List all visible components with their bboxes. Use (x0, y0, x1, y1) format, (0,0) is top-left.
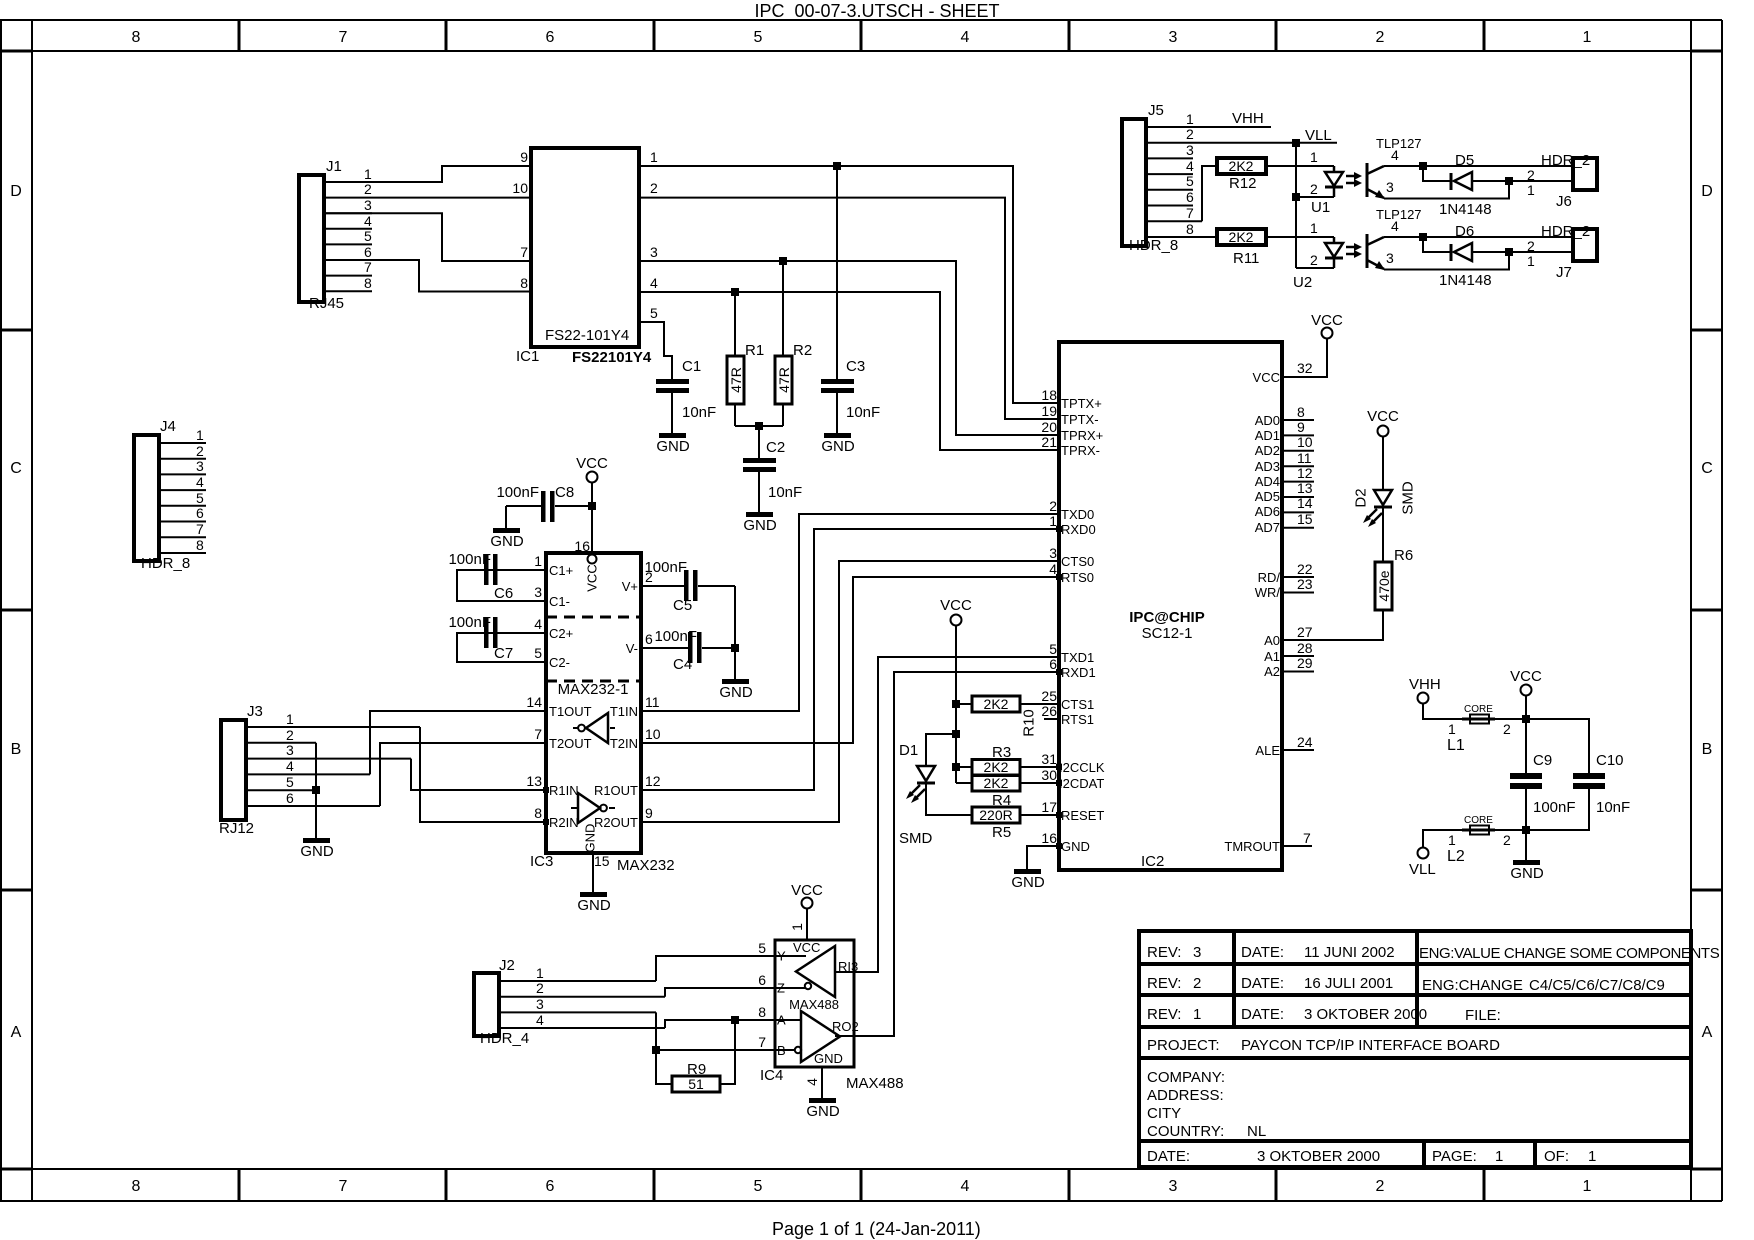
svg-text:5: 5 (650, 305, 658, 321)
svg-text:6: 6 (758, 972, 766, 988)
power VLL terminal (1409, 830, 1462, 878)
IC2 IPC@CHIP SC12-1 (1041, 342, 1312, 870)
svg-text:2: 2 (536, 980, 544, 996)
svg-text:MAX488: MAX488 (846, 1075, 904, 1092)
svg-text:PAGE:: PAGE: (1432, 1148, 1477, 1165)
pin stub AD4 (1282, 481, 1314, 483)
pin connection marks (543, 526, 1062, 849)
wire IC1.4 to IC2.TPRX- (639, 292, 1059, 450)
svg-text:R12: R12 (1229, 175, 1257, 192)
pin stub RD/ (1282, 576, 1314, 578)
svg-text:GND: GND (577, 897, 611, 914)
svg-text:1: 1 (650, 149, 658, 165)
svg-text:RXD0: RXD0 (1061, 522, 1096, 537)
wire IC3.R2OUT to IC2.CTS0 (641, 561, 1059, 822)
driver triangle in IC4 (775, 946, 858, 997)
node junction on pin1 line for C3 (833, 162, 841, 170)
svg-text:MAX232-1: MAX232-1 (558, 681, 629, 698)
svg-text:2: 2 (1310, 252, 1318, 268)
svg-text:COUNTRY:: COUNTRY: (1147, 1123, 1224, 1140)
svg-text:Page 1 of 1 (24-Jan-2011): Page 1 of 1 (24-Jan-2011) (772, 1219, 981, 1239)
svg-text:4: 4 (961, 1178, 970, 1195)
power VHH terminal (1409, 676, 1462, 719)
svg-text:10: 10 (512, 180, 528, 196)
svg-text:VCC: VCC (1510, 668, 1542, 685)
pin stub AD2 (1282, 450, 1314, 452)
svg-text:3: 3 (196, 458, 204, 474)
svg-text:VCC: VCC (1311, 312, 1343, 329)
svg-text:5: 5 (754, 1178, 763, 1195)
connector J3 RJ12 (219, 703, 420, 837)
node junctions on VCC rail (952, 700, 960, 708)
svg-text:16 JULI 2001: 16 JULI 2001 (1304, 975, 1393, 992)
pin stub AD3 (1282, 465, 1314, 467)
svg-text:TPTX-: TPTX- (1061, 412, 1099, 427)
wire IC1.1 to IC2.TPTX+ (639, 166, 1059, 403)
svg-text:L2: L2 (1447, 848, 1465, 865)
wire IC1.3 to IC2.TPRX+ (639, 261, 1059, 435)
svg-text:8: 8 (1297, 404, 1305, 420)
wire IC1.5 to C1 (639, 322, 672, 381)
resistor R11 2K2 (1217, 229, 1266, 267)
svg-text:6: 6 (546, 1178, 555, 1195)
svg-text:7: 7 (339, 29, 348, 46)
wire J2.1 to IC4.Y (656, 956, 775, 981)
pin stub ALE (1282, 749, 1314, 751)
ground for C2 (743, 512, 777, 534)
svg-text:R6: R6 (1394, 547, 1413, 564)
svg-text:SMD: SMD (1400, 481, 1417, 515)
svg-text:16: 16 (1041, 830, 1057, 846)
svg-text:V-: V- (626, 641, 638, 656)
svg-text:9: 9 (520, 149, 528, 165)
title block (1139, 931, 1720, 1167)
svg-text:5: 5 (286, 774, 294, 790)
svg-text:1: 1 (286, 711, 294, 727)
capacitor C3 10nF (821, 166, 880, 433)
svg-text:HDR_2: HDR_2 (1541, 223, 1590, 240)
power VCC at MAX232 pin16 (576, 455, 608, 553)
svg-text:5: 5 (196, 490, 204, 506)
svg-text:4: 4 (1391, 147, 1399, 163)
svg-text:C: C (10, 460, 22, 477)
svg-text:A2: A2 (1264, 664, 1280, 679)
svg-text:1: 1 (1588, 1148, 1596, 1165)
svg-text:9: 9 (1297, 419, 1305, 435)
svg-text:RO2: RO2 (832, 1019, 859, 1034)
svg-text:RJ12: RJ12 (219, 820, 254, 837)
svg-text:C1-: C1- (549, 594, 570, 609)
svg-text:15: 15 (594, 853, 610, 869)
svg-text:1: 1 (1495, 1148, 1503, 1165)
svg-text:IC4: IC4 (760, 1067, 783, 1084)
svg-text:1: 1 (1193, 1006, 1201, 1023)
svg-text:C1: C1 (682, 358, 701, 375)
wire R1/R2 common node (735, 425, 783, 427)
svg-text:10nF: 10nF (682, 404, 716, 421)
svg-text:8: 8 (132, 29, 141, 46)
svg-text:J5: J5 (1148, 102, 1164, 119)
svg-text:TPRX-: TPRX- (1061, 443, 1100, 458)
svg-text:RTS0: RTS0 (1061, 570, 1094, 585)
svg-text:I2CDAT: I2CDAT (1059, 776, 1104, 791)
svg-text:47R: 47R (728, 367, 744, 393)
pin stub RTS1 (1044, 718, 1059, 720)
svg-text:AD1: AD1 (1255, 428, 1280, 443)
svg-text:11 JUNI 2002: 11 JUNI 2002 (1304, 944, 1395, 961)
svg-text:TXD0: TXD0 (1061, 507, 1094, 522)
wire to C10 branch (1526, 719, 1589, 774)
svg-text:C2: C2 (766, 439, 785, 456)
svg-text:47R: 47R (776, 367, 792, 393)
receiver triangle in IC4 (775, 1011, 859, 1062)
svg-text:1: 1 (1448, 832, 1456, 848)
wire IC2.TXD1 to MAX488 RI (835, 657, 1059, 972)
svg-text:R5: R5 (992, 824, 1011, 841)
svg-text:C: C (1701, 460, 1713, 477)
svg-text:RESET: RESET (1061, 808, 1104, 823)
wire J2.4 to IC4.A and R9 (665, 1020, 775, 1028)
svg-text:R10: R10 (1021, 709, 1038, 737)
svg-text:2: 2 (1310, 181, 1318, 197)
svg-text:C2-: C2- (549, 655, 570, 670)
svg-text:470e: 470e (1376, 570, 1392, 601)
svg-text:6: 6 (645, 631, 653, 647)
svg-text:2K2: 2K2 (984, 759, 1009, 775)
svg-text:PAYCON TCP/IP INTERFACE BOARD: PAYCON TCP/IP INTERFACE BOARD (1241, 1037, 1500, 1054)
svg-text:1: 1 (1527, 253, 1535, 269)
svg-text:10nF: 10nF (1596, 799, 1630, 816)
svg-text:R9: R9 (687, 1061, 706, 1078)
capacitor C5 100nF on V+ (641, 559, 735, 648)
IC3 MAX232 box (526, 538, 674, 874)
power VCC at D2 (1367, 408, 1399, 437)
wire IC3.T1IN to IC2.TXD0 (641, 514, 1059, 711)
svg-text:1: 1 (536, 965, 544, 981)
pin stub AD5 (1282, 496, 1314, 498)
wire IC3.R1OUT to IC2.RXD0 (641, 529, 1059, 790)
svg-text:GND: GND (719, 684, 753, 701)
ground for C9/C10/L2 (1510, 830, 1544, 882)
svg-text:100nF: 100nF (1533, 799, 1576, 816)
svg-text:3: 3 (534, 584, 542, 600)
svg-text:GND: GND (806, 1103, 840, 1120)
svg-text:22: 22 (1297, 561, 1313, 577)
ground for C3 (821, 433, 855, 455)
svg-text:4: 4 (961, 29, 970, 46)
inductor L2 CORE (1447, 815, 1526, 865)
svg-text:AD0: AD0 (1255, 413, 1280, 428)
resistor R10 2K2 (956, 696, 1059, 737)
svg-text:C7: C7 (494, 645, 513, 662)
svg-text:SC12-1: SC12-1 (1142, 625, 1193, 642)
pin stub WR/ (1282, 592, 1314, 594)
node junction L2/C9/GND (1522, 826, 1530, 834)
wire IC2.GND to ground (1027, 846, 1059, 869)
capacitor C8 100nF (496, 484, 592, 528)
diode D5 1N4148 (1423, 152, 1573, 218)
svg-text:U2: U2 (1293, 274, 1312, 291)
svg-text:7: 7 (758, 1034, 766, 1050)
capacitor C6 100nF with loop to C1- (448, 551, 546, 602)
svg-text:J3: J3 (247, 703, 263, 720)
svg-text:10: 10 (645, 726, 661, 742)
node junction on pin3 line for R2 (779, 257, 787, 265)
wire VLL rail down to U1.2/U2.2 (1295, 143, 1297, 268)
svg-text:28: 28 (1297, 640, 1313, 656)
svg-text:31: 31 (1041, 751, 1057, 767)
svg-text:2K2: 2K2 (1229, 158, 1254, 174)
svg-text:V+: V+ (622, 579, 638, 594)
svg-text:GND: GND (1011, 874, 1045, 891)
resistor R5 220R (972, 807, 1059, 841)
svg-text:GND: GND (300, 843, 334, 860)
svg-text:AD2: AD2 (1255, 443, 1280, 458)
svg-text:R1OUT: R1OUT (594, 783, 638, 798)
svg-text:RJ45: RJ45 (309, 295, 344, 312)
svg-text:B: B (11, 741, 22, 758)
svg-text:IPC@CHIP: IPC@CHIP (1129, 609, 1204, 626)
svg-text:J7: J7 (1556, 264, 1572, 281)
svg-text:13: 13 (526, 773, 542, 789)
inverter buffer T (MAX232 driver) (573, 713, 615, 743)
capacitor C2 10nF (743, 426, 802, 512)
resistor R2 47R (775, 261, 812, 426)
svg-text:10nF: 10nF (846, 404, 880, 421)
connector J2 HDR_4 (474, 957, 665, 1047)
svg-text:5: 5 (534, 645, 542, 661)
wire U1 emitter (1384, 181, 1509, 199)
svg-text:ADDRESS:: ADDRESS: (1147, 1087, 1224, 1104)
inverter buffer R (MAX232 receiver) (571, 793, 615, 823)
svg-text:32: 32 (1297, 360, 1313, 376)
svg-text:ALE: ALE (1255, 743, 1280, 758)
svg-text:7: 7 (196, 521, 204, 537)
svg-text:3: 3 (536, 996, 544, 1012)
power VCC pull-up rail (940, 597, 972, 783)
svg-text:7: 7 (1186, 205, 1194, 221)
svg-text:21: 21 (1041, 434, 1057, 450)
svg-text:4: 4 (196, 474, 204, 490)
svg-text:C10: C10 (1596, 752, 1624, 769)
svg-text:3: 3 (1186, 142, 1194, 158)
wire U2 emitter (1384, 252, 1509, 270)
svg-text:5: 5 (754, 29, 763, 46)
svg-text:T2IN: T2IN (610, 736, 638, 751)
svg-text:2K2: 2K2 (984, 775, 1009, 791)
wire J3.2/J3.5 to GND (315, 743, 317, 838)
svg-text:ENG:CHANGE: ENG:CHANGE (1422, 977, 1523, 994)
svg-text:CITY: CITY (1147, 1105, 1181, 1122)
ground for IC4 pin4 (804, 1067, 840, 1120)
wire J3.1 to IC3.R2IN (420, 727, 546, 822)
wire R11 to U2 LED (1266, 236, 1334, 238)
svg-text:PROJECT:: PROJECT: (1147, 1037, 1220, 1054)
svg-text:R3: R3 (992, 744, 1011, 761)
svg-text:10nF: 10nF (768, 484, 802, 501)
svg-text:8: 8 (364, 275, 372, 291)
svg-text:ENG:VALUE CHANGE SOME COMPONEN: ENG:VALUE CHANGE SOME COMPONENTS (1419, 945, 1720, 962)
svg-text:L1: L1 (1447, 737, 1465, 754)
svg-text:VLL: VLL (1409, 861, 1436, 878)
svg-text:2K2: 2K2 (1229, 229, 1254, 245)
node junction VCC/C8 (588, 502, 596, 510)
svg-text:RD/: RD/ (1258, 570, 1281, 585)
wire J1.6 to IC1.8 (324, 260, 531, 292)
svg-text:R1IN: R1IN (549, 783, 579, 798)
resistor R9 51 (672, 1061, 720, 1092)
svg-text:I2CCLK: I2CCLK (1059, 760, 1105, 775)
svg-text:D5: D5 (1455, 152, 1474, 169)
svg-text:17: 17 (1041, 799, 1057, 815)
svg-text:220R: 220R (979, 807, 1012, 823)
svg-text:2: 2 (1503, 721, 1511, 737)
svg-text:C9: C9 (1533, 752, 1552, 769)
svg-text:HDR_2: HDR_2 (1541, 152, 1590, 169)
svg-text:1N4148: 1N4148 (1439, 272, 1492, 289)
svg-text:R2OUT: R2OUT (594, 815, 638, 830)
optocoupler U1 TLP127 (1296, 136, 1422, 216)
svg-text:1: 1 (1583, 29, 1592, 46)
diode D1 SMD LED (899, 742, 972, 847)
svg-text:1: 1 (196, 427, 204, 443)
capacitor C9 100nF (1510, 719, 1576, 830)
capacitor C4 100nF on V- (641, 628, 735, 673)
capacitor C10 10nF (1526, 752, 1630, 830)
ground for IC3 pin15 (577, 853, 611, 914)
svg-text:6: 6 (196, 505, 204, 521)
svg-text:VCC: VCC (585, 564, 600, 591)
svg-text:TMROUT: TMROUT (1224, 839, 1280, 854)
svg-text:2K2: 2K2 (984, 696, 1009, 712)
svg-text:8: 8 (534, 805, 542, 821)
svg-text:HDR_4: HDR_4 (480, 1030, 529, 1047)
svg-text:MAX232: MAX232 (617, 857, 675, 874)
svg-text:J6: J6 (1556, 193, 1572, 210)
svg-text:20: 20 (1041, 419, 1057, 435)
wire VCC rail to D1 (926, 734, 956, 766)
svg-text:2: 2 (1193, 975, 1201, 992)
pin stub AD7 (1282, 527, 1314, 529)
pin stub AD1 (1282, 434, 1314, 436)
svg-text:8: 8 (132, 1178, 141, 1195)
svg-text:3: 3 (1386, 179, 1394, 195)
svg-text:R2: R2 (793, 342, 812, 359)
svg-text:7: 7 (1303, 830, 1311, 846)
svg-text:5: 5 (1049, 641, 1057, 657)
svg-text:3: 3 (286, 742, 294, 758)
svg-text:VCC: VCC (1253, 370, 1280, 385)
svg-text:6: 6 (1186, 189, 1194, 205)
svg-text:T2OUT: T2OUT (549, 736, 592, 751)
resistor R1 47R (727, 292, 764, 426)
svg-text:51: 51 (688, 1076, 704, 1092)
svg-text:7: 7 (339, 1178, 348, 1195)
svg-text:C6: C6 (494, 585, 513, 602)
node junction VLL (1292, 139, 1300, 147)
svg-text:VCC: VCC (1367, 408, 1399, 425)
node junction C5/C4 (731, 644, 739, 652)
svg-text:2: 2 (1376, 29, 1385, 46)
ground for C8 (490, 528, 524, 550)
svg-text:2: 2 (1527, 238, 1535, 254)
svg-text:J2: J2 (499, 957, 515, 974)
svg-text:2: 2 (1376, 1178, 1385, 1195)
svg-text:2: 2 (1049, 498, 1057, 514)
svg-text:8: 8 (196, 537, 204, 553)
svg-text:C8: C8 (555, 484, 574, 501)
diode D6 1N4148 (1423, 223, 1573, 289)
power VCC at IC4 pin1 (789, 882, 823, 940)
svg-text:OF:: OF: (1544, 1148, 1569, 1165)
svg-text:11: 11 (645, 694, 660, 710)
svg-text:CTS1: CTS1 (1061, 697, 1094, 712)
connector J1 RJ45 (299, 158, 531, 312)
ground for C4/C5 (719, 648, 753, 701)
svg-text:8: 8 (1186, 221, 1194, 237)
svg-text:3 OKTOBER 2000: 3 OKTOBER 2000 (1304, 1006, 1427, 1023)
svg-text:4: 4 (534, 616, 542, 632)
svg-text:5: 5 (364, 228, 372, 244)
resistor R3 2K2 (956, 744, 1059, 775)
svg-text:VCC: VCC (940, 597, 972, 614)
svg-text:A1: A1 (1264, 649, 1280, 664)
optocoupler U2 TLP127 (1293, 207, 1422, 291)
svg-text:7: 7 (534, 726, 542, 742)
svg-text:MAX488: MAX488 (789, 997, 839, 1012)
svg-text:C5: C5 (673, 597, 692, 614)
ground for J3 (300, 838, 334, 860)
wire IC2.A0 to R6 (1282, 610, 1383, 640)
svg-text:AD5: AD5 (1255, 489, 1280, 504)
svg-text:3: 3 (1169, 29, 1178, 46)
svg-text:SMD: SMD (899, 830, 933, 847)
svg-text:RXD1: RXD1 (1061, 665, 1096, 680)
svg-text:GND: GND (583, 824, 598, 853)
svg-text:8: 8 (520, 275, 528, 291)
svg-text:1: 1 (1527, 182, 1535, 198)
svg-text:DATE:: DATE: (1241, 975, 1284, 992)
svg-text:12: 12 (645, 773, 661, 789)
svg-text:IC3: IC3 (530, 853, 553, 870)
svg-text:J1: J1 (326, 158, 342, 175)
wire IC2.RXD1 to MAX488 RO (835, 672, 1059, 1036)
svg-text:100nF: 100nF (654, 628, 697, 645)
ground for IC2 (1011, 869, 1045, 891)
svg-text:IC1: IC1 (516, 348, 539, 365)
svg-text:1: 1 (364, 166, 372, 182)
svg-text:A: A (1702, 1024, 1713, 1041)
svg-text:T1OUT: T1OUT (549, 704, 592, 719)
diode D2 SMD LED (1353, 437, 1417, 527)
svg-text:TPTX+: TPTX+ (1061, 396, 1102, 411)
svg-text:RI3: RI3 (838, 959, 858, 974)
svg-text:IPC_00-07-3.UTSCH - SHEET: IPC_00-07-3.UTSCH - SHEET (754, 1, 999, 22)
svg-text:GND: GND (743, 517, 777, 534)
svg-text:24: 24 (1297, 734, 1313, 750)
pin stub A2 (1282, 671, 1314, 673)
svg-text:FS22-101Y4: FS22-101Y4 (545, 327, 629, 344)
svg-text:1: 1 (789, 923, 805, 931)
svg-text:4: 4 (286, 758, 294, 774)
svg-text:D: D (10, 183, 22, 200)
svg-text:A: A (11, 1024, 22, 1041)
svg-text:VCC: VCC (576, 455, 608, 472)
svg-text:RTS1: RTS1 (1061, 712, 1094, 727)
svg-text:HDR_8: HDR_8 (141, 555, 190, 572)
svg-text:DATE:: DATE: (1241, 944, 1284, 961)
svg-text:3: 3 (650, 244, 658, 260)
